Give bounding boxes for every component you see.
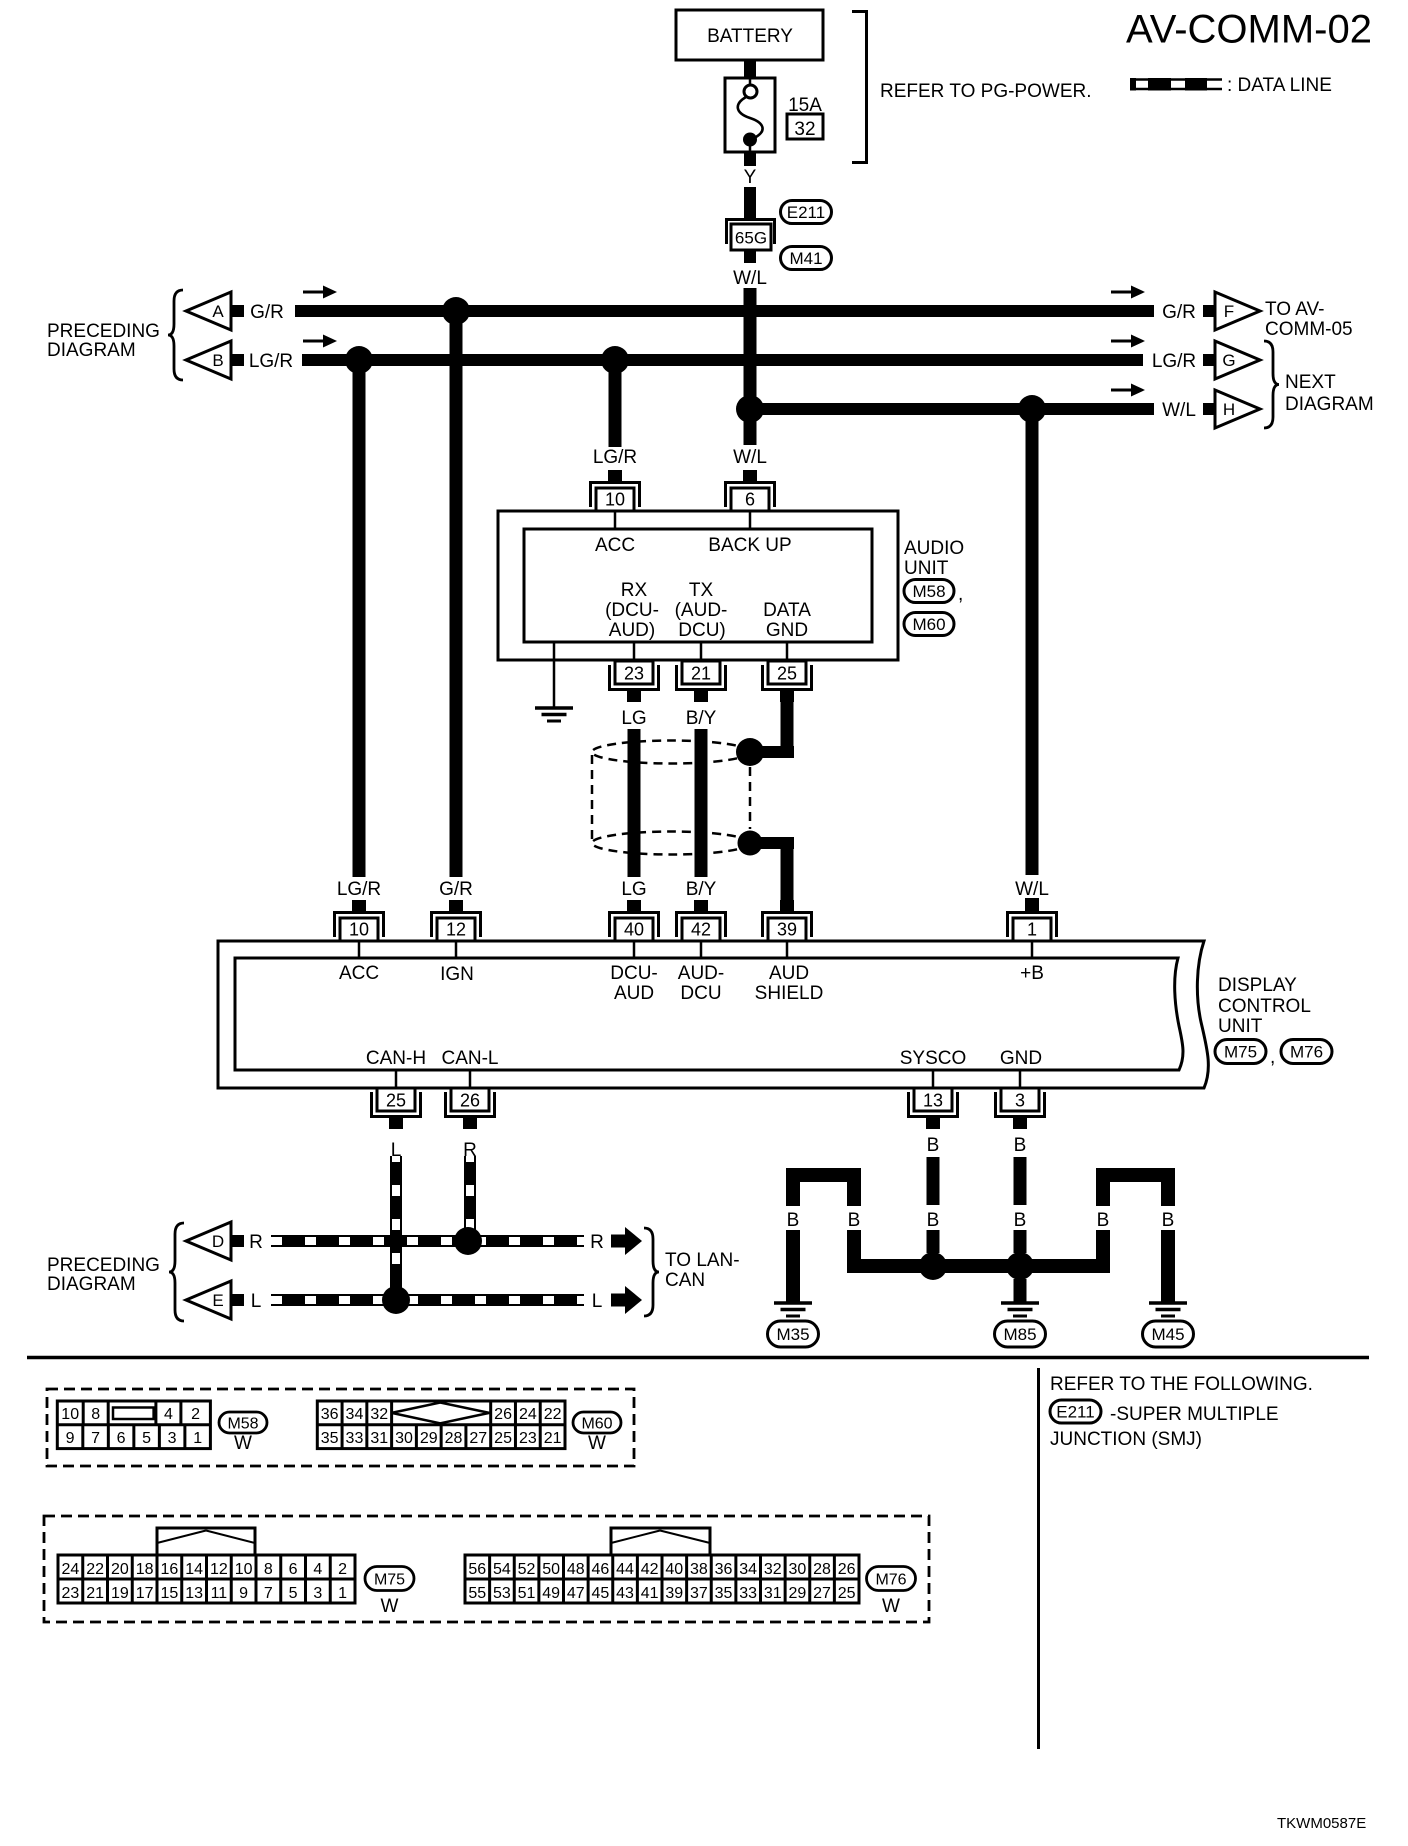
display pin 13 [907, 1088, 959, 1129]
right ground bridge [1096, 1168, 1175, 1302]
svg-text:W/L: W/L [733, 447, 767, 468]
svg-text:25: 25 [777, 664, 797, 684]
connector M76 oval [1281, 1040, 1332, 1064]
display pin42 lead [700, 941, 703, 958]
svg-text:H: H [1223, 400, 1235, 419]
label B/Y above pin 42 [686, 879, 717, 900]
wire BY pin21 to pin42 [695, 729, 708, 877]
svg-text:17: 17 [136, 1585, 154, 1602]
svg-text:9: 9 [66, 1430, 75, 1447]
svg-text:W/L: W/L [1015, 879, 1049, 900]
svg-text:JUNCTION (SMJ): JUNCTION (SMJ) [1050, 1429, 1202, 1450]
connector M58 oval [904, 580, 963, 606]
label W/L above display pin 1 [1015, 879, 1049, 900]
audio pin25 lead [786, 642, 789, 661]
svg-text:(AUD-: (AUD- [675, 600, 728, 621]
label DCU-AUD [610, 963, 658, 1004]
svg-text:W: W [381, 1596, 399, 1617]
brace to lan-can [644, 1228, 659, 1316]
svg-text:TX: TX [689, 580, 714, 601]
svg-text:M76: M76 [1290, 1043, 1323, 1062]
svg-text:,: , [958, 584, 963, 605]
svg-text:31: 31 [764, 1585, 782, 1602]
svg-text:E: E [212, 1291, 223, 1310]
svg-text:29: 29 [789, 1585, 807, 1602]
label GND [1000, 1048, 1042, 1069]
svg-text:B/Y: B/Y [686, 708, 717, 729]
svg-text:7: 7 [91, 1430, 100, 1447]
svg-text:W: W [234, 1433, 252, 1454]
label ACC audio [595, 535, 635, 556]
label L row E left [251, 1291, 262, 1312]
label DISPLAY CONTROL UNIT [1218, 975, 1311, 1037]
svg-text:47: 47 [567, 1585, 585, 1602]
svg-text:ACC: ACC [339, 963, 379, 984]
svg-text:UNIT: UNIT [904, 558, 949, 579]
svg-text:48: 48 [567, 1561, 585, 1578]
label ACC display [339, 963, 379, 984]
label LG/R row B [249, 351, 293, 372]
display pin10 lead [358, 941, 361, 958]
label RX (DCU-AUD) [605, 580, 659, 641]
svg-text:ACC: ACC [595, 535, 635, 556]
junction ground 13 [919, 1252, 947, 1280]
display pin 25 [370, 1088, 422, 1129]
svg-text:14: 14 [185, 1561, 203, 1578]
wire fuse to Y [744, 152, 756, 166]
note SUPER MULTIPLE JUNCTION [1050, 1404, 1279, 1450]
shield side dashed [591, 755, 594, 840]
svg-text:13: 13 [923, 1091, 943, 1111]
wire LG/R row B [302, 354, 1143, 366]
label AUD-DCU [678, 963, 724, 1004]
svg-text:5: 5 [289, 1585, 298, 1602]
svg-text:45: 45 [592, 1585, 610, 1602]
connector arrow A [186, 292, 244, 330]
audio pin 23 [608, 661, 660, 702]
svg-text:49: 49 [542, 1585, 560, 1602]
junction shield top [736, 738, 764, 766]
svg-text:UNIT: UNIT [1218, 1016, 1263, 1037]
connector E211 oval footer [1050, 1400, 1101, 1423]
label B bridge left outer [787, 1210, 800, 1231]
svg-text:27: 27 [469, 1430, 487, 1447]
svg-text:23: 23 [519, 1430, 537, 1447]
title AV-COMM-02 [1126, 8, 1372, 52]
display pin3 lead [1019, 1070, 1022, 1088]
svg-text:2: 2 [338, 1561, 347, 1578]
label B pin3 lower [1014, 1210, 1027, 1231]
audio unit box [498, 511, 898, 660]
connector M35 oval [768, 1321, 819, 1347]
svg-text:M60: M60 [912, 615, 945, 634]
svg-text:35: 35 [321, 1430, 339, 1447]
connector M60 oval footer [573, 1412, 621, 1433]
svg-text:39: 39 [777, 920, 797, 940]
label PRECEDING DIAGRAM top [47, 321, 160, 361]
svg-text:GND: GND [766, 620, 808, 641]
svg-text:DATA: DATA [763, 600, 811, 621]
svg-text:54: 54 [493, 1561, 511, 1578]
arrow direction row A [303, 286, 337, 299]
display pin 1 [1006, 900, 1058, 941]
svg-text:4: 4 [313, 1561, 322, 1578]
svg-text:BACK UP: BACK UP [708, 535, 791, 556]
svg-text:M76: M76 [875, 1571, 906, 1588]
connector face M76 [465, 1528, 859, 1603]
svg-text:1: 1 [1027, 920, 1037, 940]
svg-text:TO LAN-: TO LAN- [665, 1250, 740, 1271]
svg-text:IGN: IGN [440, 964, 474, 985]
connector face M75 [58, 1528, 355, 1603]
svg-text:DCU): DCU) [678, 620, 726, 641]
svg-text:41: 41 [641, 1585, 659, 1602]
svg-text:G/R: G/R [250, 302, 284, 323]
label IGN display [440, 964, 474, 985]
svg-text:DIAGRAM: DIAGRAM [47, 340, 136, 361]
label B bridge left inner [848, 1210, 861, 1231]
display pin13 lead [932, 1070, 935, 1088]
svg-text:25: 25 [838, 1585, 856, 1602]
svg-text:10: 10 [61, 1406, 79, 1423]
svg-text:3: 3 [168, 1430, 177, 1447]
svg-text:G/R: G/R [1162, 302, 1196, 323]
ground M35 [774, 1303, 812, 1316]
ground audio case [535, 708, 573, 721]
connector M75 oval footer [365, 1567, 414, 1591]
svg-text:6: 6 [117, 1430, 126, 1447]
svg-text:L: L [251, 1291, 262, 1312]
connector M45 oval [1143, 1321, 1194, 1347]
svg-text:23: 23 [624, 664, 644, 684]
connector face M60 [317, 1401, 565, 1449]
connector arrow G [1203, 341, 1260, 379]
svg-text:L: L [391, 1140, 402, 1161]
wire B pin13 upper [927, 1157, 940, 1205]
fuse 15A/32 [725, 78, 775, 152]
brace preceding diagram top [168, 290, 183, 380]
label LG/R row G [1152, 351, 1196, 372]
svg-text:DIAGRAM: DIAGRAM [47, 1274, 136, 1295]
arrow direction row F [1111, 286, 1145, 299]
svg-text:RX: RX [621, 580, 648, 601]
svg-text:: DATA LINE: : DATA LINE [1227, 75, 1332, 96]
svg-text:M60: M60 [581, 1415, 612, 1432]
svg-text:3: 3 [1015, 1091, 1025, 1111]
junction row D [454, 1227, 482, 1255]
svg-text:LG/R: LG/R [337, 879, 381, 900]
svg-text:9: 9 [239, 1585, 248, 1602]
SMJ terminal 65G [727, 218, 775, 250]
display pin26 lead [469, 1070, 472, 1088]
label W M76 [882, 1596, 900, 1617]
brace preceding diagram bottom [169, 1223, 184, 1321]
part number TKWM0587E [1277, 1815, 1366, 1832]
audio pin 10 [589, 470, 641, 511]
svg-text:M75: M75 [1224, 1043, 1257, 1062]
svg-text:E211: E211 [787, 203, 825, 222]
svg-text:33: 33 [346, 1430, 364, 1447]
wire W/L to display pin 1 [1025, 415, 1039, 911]
svg-text:M58: M58 [227, 1415, 258, 1432]
svg-text:W/L: W/L [733, 268, 767, 289]
svg-text:M45: M45 [1151, 1325, 1184, 1344]
label W M58 [234, 1433, 252, 1454]
svg-text:1: 1 [193, 1430, 202, 1447]
wire G/R to display pin 12 [449, 317, 463, 911]
wire 65G down to W/L junction [744, 288, 757, 415]
junction W/L x750 [736, 395, 764, 423]
svg-text:G/R: G/R [439, 879, 473, 900]
svg-text:1: 1 [338, 1585, 347, 1602]
svg-text:21: 21 [86, 1585, 104, 1602]
svg-text:B: B [927, 1135, 940, 1156]
svg-text:R: R [590, 1232, 604, 1253]
wire stub below 65G [744, 250, 756, 263]
svg-text:AUD-: AUD- [678, 963, 724, 984]
label B below pin 13 [927, 1135, 940, 1156]
svg-text:B: B [927, 1210, 940, 1231]
label B bridge right inner [1097, 1210, 1110, 1231]
svg-text:31: 31 [370, 1430, 388, 1447]
data wire L pin25 to E row [391, 1156, 401, 1300]
wire W/L row H [750, 403, 1154, 415]
arrow direction row B [303, 335, 337, 348]
display pin1 lead [1031, 941, 1034, 958]
label R row D right [590, 1232, 604, 1253]
ground M85 [1001, 1303, 1039, 1316]
display pin 3 [994, 1088, 1046, 1129]
svg-text:28: 28 [813, 1561, 831, 1578]
connector arrow E [186, 1281, 244, 1319]
svg-text:SYSCO: SYSCO [900, 1048, 967, 1069]
svg-text:8: 8 [264, 1561, 273, 1578]
svg-text:55: 55 [468, 1585, 486, 1602]
battery B1 [676, 10, 823, 60]
svg-text:Y: Y [744, 167, 757, 188]
svg-text:7: 7 [264, 1585, 273, 1602]
svg-text:53: 53 [493, 1585, 511, 1602]
svg-text:10: 10 [605, 490, 625, 510]
svg-text:AUD): AUD) [609, 620, 655, 641]
connector M75 oval [1215, 1040, 1275, 1069]
svg-text:M41: M41 [789, 249, 822, 268]
svg-text:6: 6 [289, 1561, 298, 1578]
connector E211 oval [781, 201, 832, 224]
svg-text:W: W [882, 1596, 900, 1617]
svg-text:22: 22 [86, 1561, 104, 1578]
connector detail box M75 M76 dashed frame [44, 1516, 929, 1622]
svg-text:51: 51 [518, 1585, 536, 1602]
svg-text:LG: LG [621, 879, 646, 900]
svg-text:27: 27 [813, 1585, 831, 1602]
svg-text:NEXT: NEXT [1285, 372, 1336, 393]
connector detail box M58 M60 dashed frame [47, 1389, 634, 1466]
junction ground 3 [1006, 1252, 1034, 1280]
svg-text:33: 33 [739, 1585, 757, 1602]
svg-text:3: 3 [313, 1585, 322, 1602]
svg-text:30: 30 [789, 1561, 807, 1578]
svg-text:40: 40 [624, 920, 644, 940]
label L row E right [592, 1291, 603, 1312]
display pin 39 [761, 900, 813, 941]
svg-text:34: 34 [739, 1561, 757, 1578]
label LG above pin 40 [621, 879, 646, 900]
note NEXT DIAGRAM [1285, 372, 1374, 415]
svg-text:25: 25 [494, 1430, 512, 1447]
separator vertical [1037, 1368, 1040, 1749]
label B/Y below pin 21 [686, 708, 717, 729]
svg-text:21: 21 [691, 664, 711, 684]
svg-text:21: 21 [544, 1430, 562, 1447]
label SYSCO [900, 1048, 967, 1069]
label R row D left [249, 1232, 263, 1253]
svg-text:D: D [212, 1232, 224, 1251]
svg-text:38: 38 [690, 1561, 708, 1578]
wire battery to fuse [744, 60, 756, 78]
connector M76 oval footer [867, 1567, 916, 1591]
svg-text:34: 34 [346, 1406, 364, 1423]
display pin 42 [675, 900, 727, 941]
svg-text:AUD: AUD [614, 983, 654, 1004]
svg-text:35: 35 [715, 1585, 733, 1602]
connector M60 oval [904, 613, 954, 636]
shield ellipse top [592, 741, 750, 764]
wire B pin3 to junction [1014, 1230, 1027, 1253]
svg-text:B: B [1014, 1210, 1027, 1231]
wire junction3 to ground M85 [1014, 1279, 1027, 1302]
svg-text:42: 42 [691, 920, 711, 940]
display pin39 lead [786, 941, 789, 958]
svg-text:COMM-05: COMM-05 [1265, 319, 1353, 340]
arrow direction row G [1111, 335, 1145, 348]
junction shield bottom [738, 831, 763, 856]
svg-text:18: 18 [136, 1561, 154, 1578]
display pin12 lead [455, 941, 458, 958]
display pin 10 [333, 900, 385, 941]
svg-text:39: 39 [665, 1585, 683, 1602]
data wire row D [271, 1236, 584, 1246]
svg-text:W/L: W/L [1162, 400, 1196, 421]
svg-text:PRECEDING: PRECEDING [47, 1255, 160, 1276]
shield ellipse bottom [592, 832, 750, 855]
arrow direction row H [1111, 384, 1145, 397]
wire W/L to audio pin 6 [744, 415, 757, 445]
label TX (AUD-DCU) [675, 580, 728, 641]
audio pin6 lead [749, 511, 752, 529]
svg-text:25: 25 [386, 1091, 406, 1111]
wire B pin3 upper [1014, 1157, 1027, 1205]
arrow to lan-can D [611, 1227, 642, 1255]
label AUD SHIELD [755, 963, 824, 1004]
svg-text:10: 10 [235, 1561, 253, 1578]
audio pin 6 [724, 470, 776, 511]
connector arrow B [186, 341, 244, 379]
svg-text:20: 20 [111, 1561, 129, 1578]
svg-text:36: 36 [321, 1406, 339, 1423]
svg-text:TO AV-: TO AV- [1265, 299, 1325, 320]
svg-text:40: 40 [665, 1561, 683, 1578]
svg-text:GND: GND [1000, 1048, 1042, 1069]
svg-text:B: B [848, 1210, 861, 1231]
wire stub LG pin40 [627, 900, 641, 911]
svg-text:36: 36 [715, 1561, 733, 1578]
display pin25 lead [395, 1070, 398, 1088]
display pin 26 [444, 1088, 496, 1129]
svg-text:LG: LG [621, 708, 646, 729]
label W/L below 65G [733, 268, 767, 289]
label LG/R above display pin 10 [337, 879, 381, 900]
label R below pin 26 [463, 1140, 477, 1161]
svg-text:REFER TO THE FOLLOWING.: REFER TO THE FOLLOWING. [1050, 1374, 1313, 1395]
data wire R pin26 to D row [465, 1156, 475, 1241]
audio case ground lead [553, 642, 556, 707]
svg-text:-SUPER MULTIPLE: -SUPER MULTIPLE [1110, 1404, 1279, 1425]
audio pin21 lead [700, 642, 703, 661]
wire shield to pin39 [750, 837, 794, 911]
svg-text:PRECEDING: PRECEDING [47, 321, 160, 342]
svg-text:42: 42 [641, 1561, 659, 1578]
label CAN-H [366, 1048, 426, 1069]
audio pin10 lead [614, 511, 617, 529]
label L below pin 25 [391, 1140, 402, 1161]
svg-text:26: 26 [460, 1091, 480, 1111]
svg-text:11: 11 [211, 1585, 228, 1602]
svg-text:32: 32 [794, 119, 815, 140]
label CAN-L [441, 1048, 498, 1069]
svg-text:B: B [787, 1210, 800, 1231]
svg-text:SHIELD: SHIELD [755, 983, 824, 1004]
svg-text:15: 15 [160, 1585, 178, 1602]
display pin 12 [430, 900, 482, 941]
svg-text:R: R [249, 1232, 263, 1253]
wire LG/R to display pin 10 [352, 366, 366, 911]
wire Y to SMJ [744, 187, 756, 218]
label BACK UP audio [708, 535, 791, 556]
connector arrow F [1203, 292, 1260, 330]
svg-text:12: 12 [446, 920, 466, 940]
svg-text:32: 32 [370, 1406, 388, 1423]
svg-text:23: 23 [61, 1585, 79, 1602]
connector M85 oval [995, 1321, 1046, 1347]
svg-text:24: 24 [61, 1561, 79, 1578]
svg-text:F: F [1224, 302, 1234, 321]
label G/R row F [1162, 302, 1196, 323]
display pin 40 [608, 900, 660, 941]
svg-text:,: , [1270, 1047, 1275, 1068]
wire LG pin23 to pin40 [628, 729, 641, 877]
svg-text:26: 26 [838, 1561, 856, 1578]
svg-text:DCU: DCU [680, 983, 721, 1004]
svg-text:E211: E211 [1056, 1403, 1094, 1422]
svg-text:44: 44 [616, 1561, 634, 1578]
legend label DATA LINE [1227, 75, 1332, 96]
connector face M58 [57, 1401, 210, 1449]
left ground bridge [786, 1168, 861, 1302]
label G/R row A [250, 302, 284, 323]
fuse rating 15A [788, 95, 822, 116]
svg-text:10: 10 [349, 920, 369, 940]
label +B [1020, 963, 1044, 984]
svg-text:A: A [212, 302, 224, 321]
svg-text:W: W [588, 1433, 606, 1454]
svg-text:24: 24 [519, 1406, 537, 1423]
svg-text:4: 4 [164, 1406, 173, 1423]
note REFER TO PG-POWER. [880, 81, 1092, 102]
junction W/L x1030 [1018, 395, 1046, 423]
svg-text:29: 29 [420, 1430, 438, 1447]
svg-text:TKWM0587E: TKWM0587E [1277, 1815, 1366, 1832]
